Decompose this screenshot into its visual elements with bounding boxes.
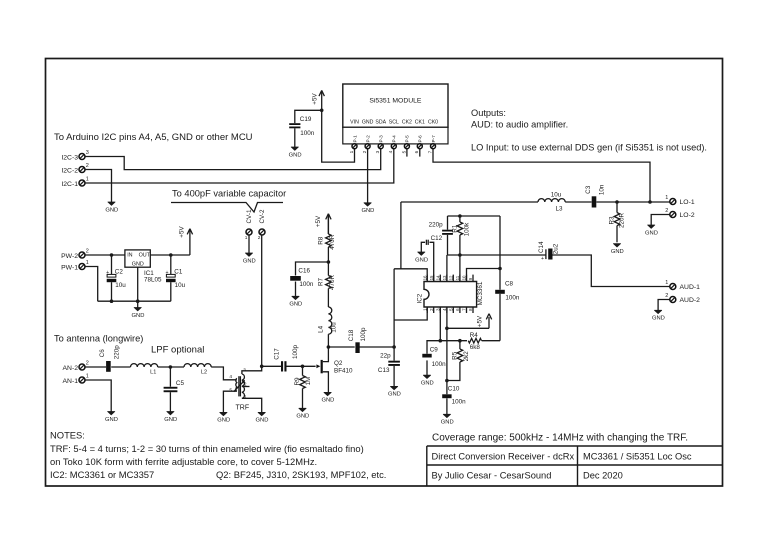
capacitor C9 100n xyxy=(422,347,446,368)
svg-text:2: 2 xyxy=(665,208,668,214)
ground TRF pin 5 xyxy=(217,412,230,423)
svg-text:Q2: BF245, J310, 2SK193, MPF10: Q2: BF245, J310, 2SK193, MPF102, etc. xyxy=(216,469,386,480)
wire C6 to L1 xyxy=(111,366,130,368)
wire pin 16 net xyxy=(394,269,427,282)
svg-text:IC2: IC2 xyxy=(417,293,424,303)
wire R7 to L4 xyxy=(327,289,329,308)
svg-text:10u: 10u xyxy=(175,282,186,289)
ground R9 xyxy=(296,408,309,419)
wire pin 3 riser xyxy=(439,307,441,341)
svg-text:220p: 220p xyxy=(113,345,120,360)
connector PW-2 pin 2 xyxy=(61,249,89,260)
svg-text:C19: C19 xyxy=(300,116,312,123)
svg-text:11: 11 xyxy=(455,275,460,280)
svg-text:2: 2 xyxy=(665,293,668,299)
connector AUD-2 pin 2 xyxy=(665,293,700,304)
svg-text:L1: L1 xyxy=(150,369,156,375)
node R5 bottom xyxy=(445,379,449,383)
svg-text:1: 1 xyxy=(244,394,247,400)
svg-text:Si5351 MODULE: Si5351 MODULE xyxy=(369,97,422,104)
svg-text:100n: 100n xyxy=(432,361,447,368)
svg-text:AUD: to audio amplifier.: AUD: to audio amplifier. xyxy=(471,120,568,130)
ground C13 xyxy=(388,386,401,397)
capacitor C10 100n xyxy=(442,386,466,406)
svg-text:L4: L4 xyxy=(318,325,325,333)
module pin 1 xyxy=(349,144,357,154)
svg-text:By Julio Cesar - CesarSound: By Julio Cesar - CesarSound xyxy=(432,471,552,481)
svg-text:10u: 10u xyxy=(551,191,562,198)
svg-text:C9: C9 xyxy=(430,347,439,354)
ground TRF pin 1 xyxy=(256,412,269,423)
svg-text:AUD-1: AUD-1 xyxy=(680,284,701,291)
svg-text:R8: R8 xyxy=(318,236,325,245)
node rail C2 xyxy=(110,299,114,303)
svg-text:220R: 220R xyxy=(619,213,626,229)
wire P-1 VIN to +5V xyxy=(322,110,355,162)
wire L2 to TRF pin 4 xyxy=(211,367,237,380)
svg-text:VIN: VIN xyxy=(350,119,359,125)
svg-text:100n: 100n xyxy=(299,281,314,288)
svg-text:1: 1 xyxy=(86,260,89,266)
svg-text:I2C-3: I2C-3 xyxy=(61,154,78,161)
connector LO-1 pin 1 xyxy=(665,195,695,206)
svg-text:3: 3 xyxy=(375,150,380,153)
transformer TRF xyxy=(229,368,249,412)
ground C9 xyxy=(421,375,434,386)
svg-text:2: 2 xyxy=(86,361,89,367)
svg-text:TRF: 5-4 = 4 turns; 1-2 = 30 t: TRF: 5-4 = 4 turns; 1-2 = 30 turns of th… xyxy=(50,443,364,454)
svg-text:I2C-1: I2C-1 xyxy=(61,181,78,188)
svg-text:GND: GND xyxy=(217,418,230,424)
module pin 6 xyxy=(414,144,422,154)
svg-text:AN-1: AN-1 xyxy=(63,378,79,385)
svg-text:AN-2: AN-2 xyxy=(63,365,79,372)
node C2/IN junction xyxy=(110,253,114,257)
node R1 top xyxy=(458,214,462,218)
wire C8 vertical xyxy=(499,216,501,341)
wire IC1 OUT to +5V xyxy=(150,254,190,256)
wire I2C-3 to SDA P-3 xyxy=(85,149,380,170)
svg-text:10u: 10u xyxy=(330,322,337,333)
ground AN-1 xyxy=(105,412,118,423)
svg-text:GND: GND xyxy=(645,230,658,236)
node pin3 C9 xyxy=(439,339,443,343)
svg-text:2: 2 xyxy=(258,235,261,241)
svg-text:C10: C10 xyxy=(448,386,460,393)
ground I2C-2 xyxy=(105,202,118,213)
capacitor C12 xyxy=(426,235,442,245)
ground R3 xyxy=(611,244,624,255)
connector AUD-1 pin 1 xyxy=(665,280,700,291)
capacitor 220p quad xyxy=(429,222,453,235)
svg-text:Dec 2020: Dec 2020 xyxy=(583,471,623,481)
ground C10 xyxy=(441,414,454,425)
wire loop to pin 1 xyxy=(394,269,427,347)
wire +5V tee xyxy=(447,317,489,328)
wire R8 to R7 xyxy=(327,247,329,276)
wire AUD-2 to GND xyxy=(658,300,669,311)
svg-text:3: 3 xyxy=(86,150,89,156)
capacitor C1 10u xyxy=(165,269,185,289)
annotation: To 400pF variable capacitor xyxy=(171,189,286,213)
wire pin 10 net xyxy=(467,269,501,282)
wire I2C-1 to SCL P-4 xyxy=(85,149,393,183)
wire C3 to LO-1 xyxy=(596,201,669,203)
node R5 top xyxy=(458,339,462,343)
capacitor C18 100p xyxy=(348,327,367,353)
wire R1 top net xyxy=(448,215,501,217)
svg-text:13: 13 xyxy=(442,275,447,280)
power +5V at module xyxy=(312,90,325,110)
wire P-6 stub xyxy=(419,149,421,157)
svg-text:C5: C5 xyxy=(176,380,185,387)
capacitor C5 xyxy=(164,380,185,392)
svg-text:SCL: SCL xyxy=(389,119,399,125)
wire pin 4 down xyxy=(446,307,448,394)
svg-text:1: 1 xyxy=(86,374,89,380)
svg-text:GND: GND xyxy=(361,208,374,214)
wire R9 to GND xyxy=(302,366,304,408)
svg-text:GND: GND xyxy=(256,418,269,424)
svg-text:4: 4 xyxy=(388,150,393,153)
svg-text:PW-2: PW-2 xyxy=(61,253,78,260)
module Si5351 xyxy=(343,84,448,144)
capacitor C16 100n xyxy=(290,267,314,288)
svg-text:2u2: 2u2 xyxy=(552,243,559,254)
svg-text:GND: GND xyxy=(289,152,302,158)
svg-text:GND: GND xyxy=(321,398,334,404)
resistor R4 6k8 xyxy=(468,332,481,351)
wire C5 leads xyxy=(169,367,171,412)
inductor L1 xyxy=(131,364,158,376)
svg-text:C14: C14 xyxy=(538,241,545,253)
node C5 tap xyxy=(169,365,173,369)
svg-text:GND: GND xyxy=(105,207,118,213)
resistor R1 100k xyxy=(451,222,470,237)
wire PW-2 to IC1 IN xyxy=(85,254,125,256)
svg-text:To 400pF variable capacitor: To 400pF variable capacitor xyxy=(172,189,286,199)
svg-text:14: 14 xyxy=(436,275,441,280)
svg-text:Q2: Q2 xyxy=(334,360,343,367)
wire C13 leads xyxy=(393,347,395,386)
power +5V at IC2 pin 4 xyxy=(476,314,491,327)
IC2 bottom pin stubs xyxy=(427,307,473,313)
svg-text:P-3: P-3 xyxy=(379,135,384,143)
connector PW-1 pin 1 xyxy=(61,260,89,271)
svg-text:78L05: 78L05 xyxy=(144,277,162,284)
node R9 tap xyxy=(301,365,305,369)
wire C14 to AUD-1 xyxy=(553,255,670,287)
svg-text:2: 2 xyxy=(362,150,367,153)
svg-text:GND: GND xyxy=(243,258,256,264)
capacitor C17 100p xyxy=(273,345,298,372)
wire P-2 to GND xyxy=(367,149,369,203)
svg-text:GND: GND xyxy=(105,417,118,423)
svg-text:I2C-2: I2C-2 xyxy=(61,167,78,174)
node +5V pin4 xyxy=(445,327,449,331)
wire C16 branch xyxy=(296,262,329,296)
wire P-7 CK0 to LO line xyxy=(433,149,650,202)
svg-text:NOTES:: NOTES: xyxy=(50,430,85,441)
connector LO-2 pin 2 xyxy=(665,208,695,219)
svg-text:100n: 100n xyxy=(505,294,520,301)
svg-text:LPF optional: LPF optional xyxy=(151,345,204,356)
capacitor C3 10n xyxy=(585,184,606,207)
svg-text:2: 2 xyxy=(244,381,247,387)
wire C18 to C13 node xyxy=(359,346,394,348)
ground C12 xyxy=(415,252,428,263)
svg-text:GND: GND xyxy=(362,119,374,125)
svg-text:2k2: 2k2 xyxy=(463,351,470,362)
svg-text:LO-1: LO-1 xyxy=(680,199,695,206)
IC2 bottom pin numbers xyxy=(422,308,473,311)
connector I2C-3 pin 3 xyxy=(61,150,88,161)
svg-text:GND: GND xyxy=(132,262,144,268)
resistor R3 220R xyxy=(609,213,626,229)
module pin 4 xyxy=(388,144,396,154)
annotation: LPF optional xyxy=(151,345,204,356)
svg-text:R9: R9 xyxy=(294,377,301,386)
svg-text:IN: IN xyxy=(127,253,132,259)
connector CV-1 xyxy=(245,209,253,241)
svg-text:2: 2 xyxy=(86,163,89,169)
capacitor C14 2u2 xyxy=(538,241,559,262)
svg-text:MC3361: MC3361 xyxy=(477,281,484,305)
svg-text:R3: R3 xyxy=(609,216,616,225)
svg-text:GND: GND xyxy=(611,249,624,255)
svg-text:10n: 10n xyxy=(599,184,606,195)
ground IC1 xyxy=(132,308,145,319)
border frame xyxy=(46,59,723,487)
svg-text:R4: R4 xyxy=(470,332,479,339)
wire IC1 GND pin xyxy=(137,267,139,307)
svg-text:P-7: P-7 xyxy=(431,135,436,143)
svg-text:7: 7 xyxy=(427,150,432,153)
svg-text:10u: 10u xyxy=(115,282,126,289)
svg-text:Direct Conversion Receiver - d: Direct Conversion Receiver - dcRx xyxy=(432,452,575,462)
wire CV-2 to TRF node xyxy=(261,235,263,366)
svg-text:GND: GND xyxy=(164,417,177,423)
svg-text:CV-1: CV-1 xyxy=(246,209,253,223)
wire P-5 stub xyxy=(406,149,408,157)
wire I2C-2 to GND xyxy=(85,170,111,203)
svg-text:6k8: 6k8 xyxy=(470,344,481,351)
svg-text:5: 5 xyxy=(229,388,232,394)
connector CV-2 xyxy=(258,209,266,241)
svg-text:CK0: CK0 xyxy=(428,119,438,125)
svg-text:220p: 220p xyxy=(429,222,444,229)
node C16 tap xyxy=(327,260,331,264)
wire mixer out riser xyxy=(400,202,402,269)
wire R3 leads xyxy=(616,202,618,242)
annotation: To antenna xyxy=(54,334,143,344)
svg-text:5: 5 xyxy=(401,150,406,153)
wire AN-2 to C6 xyxy=(85,366,106,368)
wire C10 to GND xyxy=(446,398,448,414)
svg-text:C16: C16 xyxy=(298,267,310,274)
wire CV-1 to GND xyxy=(248,235,250,253)
wire LO-2 to GND xyxy=(651,215,669,226)
resistor R5 2k2 xyxy=(451,349,470,362)
node CV2/TRF xyxy=(260,365,264,369)
svg-text:+5V: +5V xyxy=(476,315,483,327)
ground C5 xyxy=(164,412,177,423)
svg-text:+: + xyxy=(165,270,168,276)
svg-text:6: 6 xyxy=(414,150,419,153)
wire R5 leads xyxy=(447,341,460,381)
annotation: Outputs xyxy=(471,108,707,153)
svg-text:1M: 1M xyxy=(305,377,312,386)
wire L4 to Q2 drain node xyxy=(327,334,329,347)
svg-text:P-4: P-4 xyxy=(392,135,397,143)
svg-text:L2: L2 xyxy=(201,369,207,375)
svg-text:GND: GND xyxy=(421,381,434,387)
svg-text:C17: C17 xyxy=(273,348,280,360)
ground C16 xyxy=(289,296,302,307)
connector AN-1 pin 1 xyxy=(63,374,89,385)
title block xyxy=(427,433,723,487)
resistor R8 470R xyxy=(318,234,337,250)
wire C19 branch xyxy=(295,110,322,147)
svg-text:GND: GND xyxy=(652,316,665,322)
svg-text:GND: GND xyxy=(296,414,309,420)
svg-text:PW-1: PW-1 xyxy=(61,264,78,271)
svg-text:GND: GND xyxy=(415,257,428,263)
svg-text:C2: C2 xyxy=(115,269,124,276)
module pin 3 xyxy=(375,144,383,154)
wire TRF pin 5 to GND xyxy=(223,391,236,412)
transistor Q2 BF410 xyxy=(316,347,353,392)
svg-text:OUT: OUT xyxy=(139,253,151,259)
svg-text:C3: C3 xyxy=(585,185,592,194)
wire AN-1 to GND xyxy=(85,380,111,412)
notes xyxy=(50,430,386,481)
wire pin 11 riser R1 xyxy=(459,216,461,282)
wire ground rail xyxy=(98,300,171,302)
wire C1 leads xyxy=(170,255,172,301)
svg-text:R5: R5 xyxy=(451,351,458,360)
wire PW-1 to ground rail xyxy=(85,267,97,302)
wire C12 to pin 15 and GND xyxy=(421,242,433,281)
svg-text:CK2: CK2 xyxy=(402,119,412,125)
svg-text:Coverage range: 500kHz - 14MHz: Coverage range: 500kHz - 14MHz with chan… xyxy=(432,433,688,444)
module pin 7 xyxy=(427,144,435,154)
IC2 top pin stubs xyxy=(427,275,473,282)
wire 220p leads xyxy=(447,216,449,255)
svg-text:100k: 100k xyxy=(463,222,470,237)
ground AUD-2 xyxy=(652,310,665,321)
svg-text:22p: 22p xyxy=(380,353,391,360)
svg-text:100n: 100n xyxy=(300,130,315,137)
svg-text:L3: L3 xyxy=(555,205,563,212)
wire mixer to L3 xyxy=(401,201,538,203)
node R1 bottom xyxy=(458,253,462,257)
svg-text:12: 12 xyxy=(449,275,454,280)
power +5V at R8 xyxy=(315,214,331,234)
node C19 tap xyxy=(320,109,324,113)
svg-text:R1: R1 xyxy=(451,224,458,233)
svg-text:GND: GND xyxy=(289,302,302,308)
svg-text:100p: 100p xyxy=(360,327,367,342)
svg-text:4: 4 xyxy=(229,374,232,380)
svg-text:1: 1 xyxy=(245,235,248,241)
resistor R7 470R xyxy=(318,275,337,291)
IC2 top pin numbers xyxy=(422,275,473,280)
svg-text:+5V: +5V xyxy=(312,93,319,105)
wire TRF pin 1 to GND xyxy=(242,398,262,412)
svg-text:To antenna (longwire): To antenna (longwire) xyxy=(54,334,143,344)
svg-text:LO-2: LO-2 xyxy=(680,212,695,219)
inductor L3 10u xyxy=(538,191,565,212)
svg-text:AUD-2: AUD-2 xyxy=(680,297,701,304)
connector I2C-1 pin 1 xyxy=(61,177,88,188)
svg-text:P-5: P-5 xyxy=(405,135,410,143)
node rail GND xyxy=(136,299,140,303)
node pin10 C8 xyxy=(498,267,502,271)
wire C2 leads xyxy=(111,255,113,301)
svg-text:+: + xyxy=(106,270,109,276)
ic IC2 MC3361 body xyxy=(417,281,485,307)
wire C17 to Q2 gate xyxy=(286,365,315,367)
module pin 5 xyxy=(401,144,409,154)
wire Q2 node to C18 xyxy=(328,346,354,348)
svg-text:BF410: BF410 xyxy=(334,367,353,374)
connector AN-2 pin 2 xyxy=(63,361,89,372)
svg-text:MC3361 / Si5351 Loc Osc: MC3361 / Si5351 Loc Osc xyxy=(583,452,692,462)
module pin 2 xyxy=(362,144,370,154)
node Q2 drain xyxy=(327,345,331,349)
svg-text:470R: 470R xyxy=(329,234,336,250)
wire L1 to L2 xyxy=(158,366,184,368)
svg-text:1: 1 xyxy=(665,195,668,201)
annotation: To Arduino xyxy=(54,132,253,143)
svg-text:GND: GND xyxy=(441,420,454,426)
svg-text:To Arduino I2C pins A4, A5, GN: To Arduino I2C pins A4, A5, GND or other… xyxy=(54,132,253,143)
ground CV-1 xyxy=(243,253,256,264)
regulator IC1 78L05 xyxy=(125,250,162,284)
node R3 tap xyxy=(615,200,619,204)
node C1/OUT junction xyxy=(169,253,173,257)
svg-text:+5V: +5V xyxy=(315,215,322,227)
svg-text:1: 1 xyxy=(349,150,354,153)
svg-text:10: 10 xyxy=(462,275,467,280)
svg-text:16: 16 xyxy=(422,275,427,280)
node C13 tap xyxy=(392,345,396,349)
wire R4 right xyxy=(482,340,500,342)
svg-text:GND: GND xyxy=(388,392,401,398)
capacitor C13 22p xyxy=(378,353,400,374)
ground C19 xyxy=(289,147,302,158)
svg-text:2: 2 xyxy=(86,249,89,255)
ground Q2 source xyxy=(321,392,334,403)
svg-text:+5V: +5V xyxy=(178,226,185,238)
capacitor C2 10u xyxy=(106,269,126,289)
inductor L4 10u xyxy=(318,307,338,334)
resistor R9 1M xyxy=(294,376,312,389)
svg-text:470R: 470R xyxy=(329,275,336,291)
wire +5V to R8 xyxy=(327,217,329,234)
ground P-2 xyxy=(361,203,374,214)
capacitor C6 220p xyxy=(99,345,120,372)
ground LO-2 xyxy=(645,225,658,236)
svg-text:GND: GND xyxy=(132,313,145,319)
svg-text:LO Input: to use external DDS: LO Input: to use external DDS gen (if Si… xyxy=(471,143,707,153)
wire L3 to C3 xyxy=(565,201,591,203)
svg-text:CK1: CK1 xyxy=(415,119,425,125)
wire node to C17 xyxy=(262,365,281,367)
svg-text:1: 1 xyxy=(665,280,668,286)
node CK0/LO xyxy=(648,200,652,204)
